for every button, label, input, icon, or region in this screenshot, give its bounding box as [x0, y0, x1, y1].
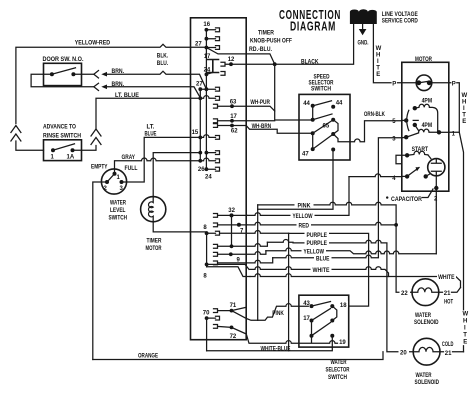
node junction RD-BLU/BLACK — [273, 62, 277, 66]
svg-text:WATER: WATER — [415, 313, 431, 319]
start winding hook to capacitor — [428, 155, 431, 159]
upper coil left contact dot — [413, 106, 417, 110]
svg-text:63: 63 — [230, 99, 237, 105]
timer contact row 153: dots both buses, terminal — [198, 151, 202, 155]
svg-text:SWITCH: SWITCH — [311, 87, 331, 93]
wire WLS pin3 to LT.BLUE to timer pin 15 — [122, 137, 201, 182]
hot water solenoid circle — [412, 279, 439, 306]
timer node 8 lower with vertical link — [206, 233, 208, 267]
water level switch arm 2-1 — [107, 174, 115, 182]
connector chevron (female) bottom BRN — [94, 83, 99, 90]
svg-text:E: E — [463, 340, 467, 346]
svg-text:22: 22 — [401, 291, 408, 297]
svg-text:26: 26 — [198, 167, 205, 173]
svg-text:SOLENOID: SOLENOID — [414, 320, 439, 326]
selector bottom-left dot — [310, 334, 314, 338]
wire timer 70 down to WHITE-BLUE run — [206, 318, 208, 351]
node timer pin LT.BLUE/BRN — [198, 96, 202, 100]
timer cam bar 17-24 — [207, 60, 219, 73]
svg-text:SWITCH: SWITCH — [328, 375, 347, 381]
line voltage service cord (black block) — [350, 9, 377, 24]
timer assembly box — [191, 18, 247, 340]
selector arm 17 — [312, 309, 331, 321]
label YELLOW — [291, 212, 315, 219]
timer contact YELLOW/32 row: terminal, dot 32 — [214, 214, 248, 218]
svg-text:PURPLE: PURPLE — [307, 241, 328, 247]
timer contact 16: dot, lead, terminal — [205, 28, 209, 32]
svg-text:17: 17 — [303, 316, 310, 322]
left vertical links — [312, 106, 314, 149]
timer contact 62: terminal, dot, wire WH-BRN out — [214, 124, 247, 128]
riser to motor 4 — [349, 174, 402, 177]
overload bracket — [396, 155, 407, 164]
wire WHITE loop motor P to terminal 1 — [449, 83, 460, 133]
svg-text:19: 19 — [339, 340, 346, 346]
svg-text:PURPLE: PURPLE — [307, 233, 328, 239]
title CONNECTION DIAGRAM — [279, 8, 341, 34]
svg-text:18: 18 — [340, 303, 347, 309]
wire timer motor bottom to timer pin 8 — [153, 222, 206, 234]
wire BLUE to motor 3 — [273, 138, 402, 258]
speed selector left contacts — [311, 104, 315, 108]
wire white riser from motor 1 down right edge — [459, 132, 463, 351]
wire WH-PUR from timer 63 to speed selector — [246, 106, 275, 111]
svg-text:T: T — [463, 333, 467, 339]
timer contact LT.BLUE row: hump over bus A, terminal — [200, 96, 219, 101]
wire GRAY from WLS pin1 to timer (with crossover humps) — [115, 158, 201, 174]
wire RED row joining riser — [247, 222, 396, 225]
wire WHITE from cord to motor P — [373, 24, 401, 83]
connector chevrons on riser — [91, 129, 101, 145]
svg-text:62: 62 — [231, 128, 238, 134]
wire door switch left dot loop — [31, 74, 93, 87]
svg-text:WATER: WATER — [110, 201, 126, 207]
timer contact 15: dot on bus B, hump over bus A, terminal — [198, 136, 202, 140]
motor main winding upper coil (2 loops) — [415, 104, 438, 132]
terminal of contact 12 pair (top) — [221, 62, 246, 66]
svg-text:T: T — [462, 113, 466, 119]
svg-text:27: 27 — [196, 82, 203, 88]
svg-text:TIMER: TIMER — [147, 239, 163, 245]
motor main winding lower coil (2 loops) — [406, 125, 439, 137]
svg-text:RED: RED — [299, 224, 310, 230]
svg-text:71: 71 — [230, 303, 237, 309]
label PURPLE — [305, 231, 330, 238]
wire step to WHITE-2 row — [207, 267, 250, 277]
svg-text:SERVICE CORD: SERVICE CORD — [382, 19, 419, 25]
svg-text:PINK: PINK — [298, 204, 312, 210]
svg-text:H: H — [376, 53, 380, 59]
water level switch pin 3 dot — [120, 180, 124, 184]
timer contact 70: dot, terminal, ORANGE drop — [205, 316, 209, 320]
selector contact 19 dot — [330, 334, 334, 338]
wire WH-BRN from timer 62 to speed selector — [246, 126, 313, 134]
svg-text:SWITCH: SWITCH — [109, 216, 128, 222]
right hook link 65 — [333, 120, 338, 134]
svg-text:15: 15 — [192, 130, 199, 136]
advance-to-rinse switch SW2 box — [44, 140, 82, 161]
terminal of contact 24 (bottom of cam bar) — [221, 72, 225, 76]
wire WHITE-BLUE from timer 70 to selector 19 — [207, 336, 333, 351]
selector arm bottom — [312, 323, 331, 336]
selector contact 43 dot — [310, 304, 314, 308]
selector arm 43 — [312, 302, 331, 307]
svg-text:24: 24 — [204, 67, 211, 73]
wire BLACK from timer 12 to service cord — [246, 24, 353, 64]
svg-text:YELLOW: YELLOW — [293, 214, 313, 220]
svg-text:44: 44 — [336, 101, 343, 107]
label YELLOW lower — [302, 248, 327, 255]
selector contact 17 dot — [310, 319, 314, 323]
svg-text:MOTOR: MOTOR — [415, 57, 433, 63]
label CAPACITOR with bullet and leader — [386, 196, 388, 198]
wire capacitor to pin 2 — [435, 176, 437, 254]
svg-text:BRN.: BRN. — [112, 82, 125, 88]
connector chevrons on left wire — [11, 126, 21, 142]
start contact dot — [424, 174, 428, 178]
protector contacts — [416, 80, 421, 85]
svg-text:CAPACITOR: CAPACITOR — [391, 197, 423, 203]
timer contact 9 row: terminal, node 9, step — [214, 251, 266, 257]
timer contact 27 (second): dots on both buses, terminal — [205, 87, 209, 91]
svg-text:17: 17 — [230, 114, 237, 120]
riser purple-up net down to WHITE-BLUE — [288, 233, 290, 350]
svg-text:LINE VOLTAGE: LINE VOLTAGE — [382, 12, 418, 18]
wire PURPLE upper to water selector 18 — [289, 233, 369, 306]
timer contact 63: terminal, dot, wire WH-PUR out — [214, 104, 247, 108]
wire BRN lower from connector to timer bus — [106, 87, 201, 98]
svg-text:H: H — [463, 319, 467, 325]
hot solenoid coil — [412, 288, 439, 292]
water level switch pin 2 dot — [105, 180, 109, 184]
svg-text:E: E — [376, 72, 380, 78]
wire knob feed down from BLACK junction — [275, 64, 313, 120]
svg-text:47: 47 — [302, 152, 309, 158]
svg-text:SOLENOID: SOLENOID — [415, 380, 440, 386]
svg-text:1A: 1A — [67, 155, 75, 161]
svg-text:GND.: GND. — [358, 41, 369, 47]
svg-text:BLUE: BLUE — [316, 257, 330, 263]
wire step to WHITE row — [207, 264, 249, 269]
connector arrow (male) top BRN — [101, 72, 107, 77]
wire WLS pin2 down left side — [93, 182, 107, 360]
wire door switch right dot to connector — [75, 73, 93, 75]
timer contact 27: dot, lead, terminal — [205, 37, 209, 41]
middle contact dot — [413, 123, 417, 127]
svg-text:T: T — [376, 66, 380, 72]
svg-text:72: 72 — [230, 334, 237, 340]
label RED — [297, 222, 312, 229]
node terminal 1 junction — [437, 130, 441, 134]
svg-text:MOTOR: MOTOR — [146, 246, 162, 252]
node bus A at 24 — [205, 73, 209, 77]
svg-text:LEVEL: LEVEL — [110, 208, 126, 214]
timer contact 8 row: dot, terminal, to PURPLE — [205, 231, 209, 235]
timer contact row GRAY 161: dot, hump, terminal — [198, 159, 202, 163]
svg-text:WATER: WATER — [331, 360, 347, 366]
speed selector right contacts — [331, 105, 335, 109]
timer contact 72: terminal, dot, wire out — [214, 325, 247, 335]
svg-text:WHITE: WHITE — [438, 275, 455, 281]
node 5 dot — [404, 118, 408, 122]
wire ORN-BLK from speed selector to motor 5 — [333, 121, 402, 142]
timer contact 71: terminal, dot, wire out to selector 43 — [214, 307, 247, 312]
start winding coil — [407, 151, 428, 155]
capacitor plates — [431, 159, 441, 176]
svg-text:70: 70 — [203, 310, 210, 316]
svg-text:21: 21 — [445, 351, 452, 357]
wire left drop to rinse switch — [16, 141, 44, 150]
wire timer 72 to selector bottom-left — [246, 334, 337, 343]
svg-text:44: 44 — [303, 101, 310, 107]
wire RD.-BLU. from contact 17 out of timer — [206, 48, 274, 65]
wire LT. BLUE riser to timer pin — [96, 98, 200, 129]
svg-text:20: 20 — [400, 351, 407, 357]
motor assembly box — [402, 62, 449, 191]
connector arrow (male) bottom BRN — [101, 85, 107, 90]
label WHITE (bundle) — [311, 266, 332, 273]
svg-text:65: 65 — [323, 124, 330, 130]
svg-text:YELLOW-RED: YELLOW-RED — [75, 41, 111, 47]
label 20 — [399, 349, 410, 356]
svg-text:TIMER: TIMER — [258, 31, 275, 37]
timer contact RED row: terminal, node 7 — [214, 223, 248, 227]
selector right hook link — [332, 306, 337, 320]
rinse switch contact dots — [51, 148, 55, 152]
ground stub and arrow — [362, 24, 364, 29]
start switch arm with arrowhead — [407, 168, 419, 177]
svg-text:BLK.: BLK. — [157, 54, 169, 60]
svg-text:DIAGRAM: DIAGRAM — [290, 20, 336, 34]
wire cold 21 to right WHITE riser — [440, 351, 464, 353]
wire pin 5 — [402, 119, 406, 121]
timer bus A vertical — [205, 30, 207, 169]
selector right middle dot — [330, 319, 334, 323]
wire pin 4 — [402, 175, 407, 177]
water level switch pin 1 dot — [113, 172, 117, 176]
label PINK — [295, 201, 314, 208]
svg-text:BLACK: BLACK — [301, 60, 319, 66]
timer contact PURPLE-low row: terminal, dot, step — [214, 242, 268, 248]
svg-text:24: 24 — [205, 175, 212, 181]
svg-text:SELECTOR: SELECTOR — [326, 368, 350, 374]
label WHITE (hot feed) — [437, 273, 456, 280]
motor protector circle — [416, 75, 432, 91]
svg-text:WH-PUR: WH-PUR — [250, 100, 270, 106]
svg-text:FULL: FULL — [125, 166, 138, 172]
svg-text:E: E — [462, 119, 466, 125]
wire PINK from timer to speed selector bottom and motor 4 — [258, 202, 412, 292]
wire YELLOW row to hot solenoid via riser — [247, 177, 349, 216]
svg-text:RINSE SWITCH: RINSE SWITCH — [43, 134, 81, 140]
wire hot 21 to WHITE — [439, 288, 461, 293]
selector left vertical link — [311, 321, 313, 336]
svg-text:RD.-BLU.: RD.-BLU. — [249, 47, 272, 53]
wire timer motor top to timer bus — [153, 153, 200, 197]
svg-text:4PM: 4PM — [422, 123, 433, 129]
wire pin 3 — [402, 136, 406, 139]
svg-text:COLD: COLD — [442, 342, 454, 348]
water level switch body circle — [101, 169, 126, 194]
cold solenoid coil — [413, 347, 440, 351]
riser PINK to speed selector bottom — [258, 150, 333, 210]
wire BRN from connector to timer bus — [106, 71, 207, 89]
wire PURPLE lower to cold solenoid — [267, 240, 413, 352]
timer contact 17/27: dot, lead, terminal (yellow-red feed) — [205, 46, 209, 50]
timer motor coil — [149, 197, 154, 222]
svg-text:PINK: PINK — [272, 311, 284, 317]
svg-text:GRAY: GRAY — [122, 155, 136, 161]
svg-text:EMPTY: EMPTY — [91, 165, 108, 171]
svg-text:W: W — [463, 312, 469, 318]
contact dash — [413, 119, 418, 121]
wire WHITE to hot solenoid 21 — [250, 267, 461, 288]
wire timer 71 to water selector 43 (PINK net) — [232, 304, 309, 321]
cold water solenoid circle — [413, 338, 440, 365]
svg-text:BLU.: BLU. — [157, 61, 169, 67]
vertical link 32 — [231, 215, 233, 246]
wire YELLOW lower to capacitor 2 — [266, 248, 436, 254]
svg-text:WATER: WATER — [416, 373, 432, 379]
node 12 dot — [229, 62, 233, 66]
water selector switch box — [299, 295, 349, 347]
svg-text:BLUE: BLUE — [145, 132, 157, 138]
wire from timer 17 joining — [246, 120, 275, 122]
svg-text:32: 32 — [228, 208, 235, 214]
label PURPLE lower — [305, 239, 330, 246]
selector contact 18 dot — [330, 304, 334, 308]
svg-text:WHITE: WHITE — [313, 268, 330, 274]
svg-text:16: 16 — [203, 22, 210, 28]
svg-text:ADVANCE TO: ADVANCE TO — [43, 125, 76, 131]
svg-text:P: P — [452, 81, 456, 87]
door switch SW1 box — [44, 63, 82, 85]
label 22 — [400, 289, 411, 296]
timer contact 17 (mid): terminal, dot, wire out — [214, 119, 247, 123]
second white row from timer 8 — [250, 274, 389, 277]
centrifugal switch blade arc — [407, 110, 409, 130]
node pin 2 on box edge — [434, 186, 438, 190]
wires to protector — [402, 82, 449, 84]
svg-text:DOOR SW. N.O.: DOOR SW. N.O. — [43, 57, 84, 63]
connector chevron (female) top BRN — [94, 71, 99, 79]
wire start contact to capacitor — [426, 174, 430, 176]
timer motor body circle — [141, 197, 166, 222]
label BLUE — [314, 255, 332, 262]
svg-text:ORN-BLK: ORN-BLK — [364, 112, 385, 118]
svg-text:21: 21 — [444, 291, 451, 297]
svg-text:KNOB-PUSH OFF: KNOB-PUSH OFF — [250, 39, 292, 45]
rinse switch arm — [53, 144, 75, 150]
door switch arm — [52, 68, 76, 74]
wire ORANGE bottom run — [93, 352, 383, 360]
svg-text:12: 12 — [228, 57, 235, 63]
speed selector switch box — [299, 94, 350, 160]
riser to PINK wire — [257, 205, 259, 320]
svg-text:W: W — [462, 93, 468, 99]
svg-text:WHITE-BLUE: WHITE-BLUE — [261, 346, 291, 352]
wire rinse switch to LT.BLUE riser — [75, 146, 97, 151]
wire YELLOW-RED from timer pin 27 to left side — [16, 44, 206, 123]
svg-text:P: P — [392, 81, 396, 87]
svg-text:W: W — [376, 46, 382, 52]
timer contact BLUE row: terminal, step — [214, 258, 273, 265]
svg-text:ORANGE: ORANGE — [138, 354, 158, 360]
timer bus B vertical — [199, 89, 201, 161]
svg-text:HOT: HOT — [444, 300, 453, 306]
svg-text:LT.: LT. — [147, 125, 155, 131]
switch arms — [313, 101, 332, 106]
door switch contact dots — [50, 72, 54, 76]
svg-text:BRN.: BRN. — [112, 69, 125, 75]
svg-text:43: 43 — [303, 301, 310, 307]
capacitor circle — [428, 159, 445, 176]
timer contact 26/24: dot on bus A end, terminal — [205, 167, 209, 171]
svg-text:27: 27 — [195, 41, 202, 47]
svg-text:H: H — [462, 100, 466, 106]
